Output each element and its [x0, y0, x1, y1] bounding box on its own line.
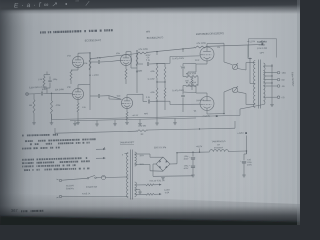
svg-text:50/60Hz: 50/60Hz: [66, 188, 74, 190]
svg-text:+415V: +415V: [237, 133, 244, 135]
label +410V: [196, 146, 203, 152]
wire V3 plate to OPT: [207, 43, 254, 70]
svg-text:4.7k 1/2W: 4.7k 1/2W: [196, 43, 205, 45]
wire V2b plate riser: [127, 94, 143, 97]
label ladder 1k: [147, 78, 154, 80]
ground bus drop 2: [95, 120, 99, 126]
bottom page edge dark: [0, 216, 300, 227]
resistor R4 plate V1b: [83, 58, 91, 70]
fuse F1: [82, 175, 106, 195]
resistor R10 bias: [157, 64, 166, 83]
output terminal 8ohm: [277, 78, 285, 81]
NFB network C2: [48, 77, 51, 89]
OPT core: [258, 60, 260, 109]
svg-text:+170V: +170V: [92, 75, 99, 77]
svg-text:5H160mA: 5H160mA: [214, 146, 224, 149]
wire rail to V1 col: [90, 53, 95, 59]
label R2 rating: [55, 89, 64, 91]
tube V2b ECC82 b: [117, 96, 133, 109]
ground bus drop 6: [173, 118, 177, 124]
output terminal 4ohm: [277, 85, 285, 88]
label +170V upper: [92, 75, 99, 77]
wire to V2a grid: [109, 60, 120, 61]
wire NFB net bottom: [44, 88, 50, 94]
output terminal 0ohm: [277, 96, 285, 99]
choke B rail: [177, 150, 247, 153]
svg-text:220k: 220k: [83, 63, 87, 65]
ground input R1: [32, 123, 36, 125]
svg-text:4.7k 1/4W: 4.7k 1/4W: [138, 49, 147, 51]
wire mid to V4: [55, 128, 200, 133]
tube V4 5687 b: [194, 97, 214, 113]
svg-text:POWER SW: POWER SW: [86, 186, 98, 188]
wire fuse to PT: [106, 176, 125, 179]
resistor R15 rail 4.7k: [136, 49, 148, 54]
svg-text:Cs 47µ 100V: Cs 47µ 100V: [172, 58, 185, 60]
AC plug terminals: [57, 179, 62, 198]
OPT secondary taps: [263, 64, 277, 100]
svg-text:+410V: +410V: [196, 146, 203, 148]
schematic caption (fig.5 title): [40, 30, 113, 32]
notes text block line3: [30, 143, 90, 145]
capacitor C15 filter: [184, 162, 196, 175]
ground R2: [50, 123, 54, 125]
capacitor C5 0.1u upper: [137, 57, 158, 66]
svg-text:400V: 400V: [146, 55, 151, 57]
label Rb1 100ohm: [195, 60, 200, 62]
input jack J1: [26, 87, 42, 96]
capacitor C7 cathode bypass upper: [180, 64, 185, 73]
heater CT ground: [135, 190, 142, 194]
capacitor C6 0.1u lower: [143, 94, 158, 103]
capacitor C16 filter: [240, 151, 252, 175]
PSU ground rail: [153, 176, 193, 180]
tube V1a ECC83 a: [67, 55, 83, 67]
svg-text:400V: 400V: [247, 164, 252, 166]
PT HV secondary: [135, 152, 137, 166]
label +41.5V: [132, 115, 139, 117]
capacitor C3 coupling upper: [90, 57, 109, 64]
wire rail down to OPT: [248, 40, 262, 59]
resistor R8 grid V3: [150, 64, 158, 83]
svg-text:NFB: NFB: [146, 31, 151, 33]
svg-text:1k 1/2W: 1k 1/2W: [147, 78, 154, 80]
wire to V2b grid: [109, 96, 121, 100]
resistor R14 balance: [185, 77, 193, 86]
svg-text:1.5k: 1.5k: [82, 107, 86, 109]
capacitor C1 0.47u: [41, 86, 47, 95]
paper texture striations: [20, 10, 303, 220]
meter jack P2: [232, 86, 238, 93]
svg-text:AC100V: AC100V: [66, 184, 74, 187]
label 12.6V: [164, 189, 170, 194]
svg-text:+41.5V: +41.5V: [132, 115, 139, 117]
wire ladder to bus: [157, 88, 192, 119]
capacitor C8 cathode bypass lower: [181, 92, 185, 100]
svg-text:Rd: Rd: [141, 134, 144, 136]
choke label: [211, 140, 226, 150]
capacitor C4 coupling lower: [90, 94, 109, 98]
heater arrow upper: [96, 147, 105, 150]
svg-text:0: 0: [122, 154, 123, 156]
label heater resistor: [149, 180, 165, 183]
meter jack P1: [232, 63, 238, 70]
label Cs lower: [172, 90, 185, 92]
label Rb2 100ohm: [196, 100, 204, 102]
wire V4 cathode: [183, 86, 207, 97]
resistor R1 input load: [29, 94, 35, 123]
svg-text:367: 367: [11, 208, 19, 213]
wire V2a plate: [126, 52, 137, 68]
vertical rail x137: [136, 50, 137, 93]
ground bus: [70, 118, 196, 121]
svg-text:TAMURA: TAMURA: [257, 40, 267, 43]
power transformer PT label: [120, 141, 136, 145]
bottom shadow band: [0, 193, 300, 225]
label +412.3V: [202, 115, 218, 118]
wire NFB net top: [44, 72, 50, 75]
resistor R9 grid V4: [150, 82, 158, 101]
PT primary taps: [122, 154, 128, 197]
ground V3 ladder: [191, 86, 193, 89]
svg-text:ECC83(12AX7): ECC83(12AX7): [85, 39, 102, 43]
notes text block line6: [22, 161, 90, 163]
wire PT to bridge AC2: [135, 165, 163, 172]
wire PT to bridge AC1: [135, 154, 163, 157]
svg-text:22k 1/4W: 22k 1/4W: [55, 89, 64, 91]
notes text block line7: [22, 165, 76, 166]
heater wire upper: [135, 184, 162, 186]
notes text block line2: [25, 139, 96, 141]
label 400V upper: [146, 55, 151, 57]
resistor R16 rail 4.7k 1/2W: [194, 43, 208, 48]
PT primary winding: [127, 153, 129, 198]
svg-text:0.6A: 0.6A: [165, 191, 170, 194]
B supply wire mid: [55, 128, 235, 133]
label +168V: [136, 70, 143, 72]
svg-text:400V: 400V: [184, 168, 189, 170]
power switch S1: [86, 175, 98, 188]
label ECC82(12AU7): [147, 36, 164, 40]
wire V3 cathode: [183, 61, 207, 72]
label AC100V: [66, 184, 74, 190]
label rectifier ERC-01-10: [154, 147, 167, 149]
wire grid V4: [157, 101, 200, 104]
label NFB values: [38, 79, 58, 81]
wire grid V3: [157, 56, 200, 64]
svg-text:16Ω: 16Ω: [282, 72, 286, 74]
notes text block line5: [22, 158, 88, 160]
ground bus drop 5: [155, 119, 159, 125]
svg-text:1M: 1M: [29, 105, 32, 107]
tube V1b ECC83 b: [67, 87, 83, 100]
wire V1b plate riser: [78, 85, 90, 89]
label +412.5V: [247, 41, 263, 45]
NFB feedback wire: [52, 105, 264, 120]
top dark band (page edge): [0, 0, 300, 10]
notes text block line1: [22, 134, 58, 137]
ground C15: [191, 175, 195, 177]
wire bridge plus: [170, 152, 178, 164]
wire V4 plate to OPT: [207, 89, 254, 115]
svg-text:TAMURA(A)-5: TAMURA(A)-5: [211, 140, 226, 144]
resistor R11 bias2: [157, 82, 166, 101]
output terminal 16ohm: [277, 71, 286, 74]
label ECC83(12AX7): [85, 39, 102, 43]
resistor R12 Rk upper: [186, 72, 198, 78]
wire secondary ground: [270, 100, 274, 107]
svg-text:F-2007: F-2007: [259, 45, 266, 47]
wire bridge minus: [153, 164, 156, 176]
svg-text:100V: 100V: [41, 89, 47, 91]
resistor R13 Rk lower: [186, 82, 198, 86]
svg-text:ECC82(12AU7): ECC82(12AU7): [147, 36, 164, 40]
resistor R2 grid leak: [51, 93, 62, 123]
OPT secondary winding: [263, 63, 265, 105]
label +415V: [235, 121, 247, 154]
PT heater secondary: [135, 182, 137, 197]
label PT 320V: [139, 155, 144, 166]
output transformer OPT label box: [248, 39, 276, 58]
choke CH winding: [210, 150, 229, 152]
OPT primary winding: [253, 61, 255, 108]
vertical rail x90: [89, 53, 90, 110]
wire C1 to grid node: [43, 93, 52, 94]
right page edge shade: [297, 0, 300, 225]
NFB network R3: [43, 75, 45, 89]
cathode network V2: [125, 66, 128, 123]
cathode R6 V1a: [70, 68, 78, 84]
ground bus drop 1: [73, 121, 77, 126]
wire V1a plate to node: [78, 52, 91, 56]
rail junction dots: [156, 48, 183, 55]
svg-text:470k: 470k: [150, 71, 154, 73]
tube V2a ECC82 a: [116, 53, 131, 66]
label NFB top: [146, 31, 151, 33]
PT core: [130, 150, 132, 200]
svg-text:1.5k: 1.5k: [38, 79, 42, 81]
svg-text:Rk 1k 1/2W: Rk 1k 1/2W: [186, 73, 197, 75]
heater wire lower: [135, 193, 162, 195]
left gutter shadow: [0, 0, 26, 225]
notes text block line4: [22, 148, 60, 149]
cathode R5 V1b: [77, 100, 86, 123]
ground V1b cathode: [76, 123, 80, 125]
wire Rk joins: [183, 72, 198, 92]
svg-text:TAMURA(A)PT: TAMURA(A)PT: [120, 141, 136, 145]
svg-text:100Ω 1W: 100Ω 1W: [196, 100, 204, 102]
bridge rectifier D1-D4: [156, 157, 170, 171]
wire input to C1: [28, 93, 40, 95]
resistor R7 plate V2a: [136, 53, 138, 66]
notes text block line8: [24, 168, 90, 170]
wire grid node to V1b: [52, 92, 73, 95]
OPT primary CT: [248, 58, 255, 84]
svg-text:400V: 400V: [184, 158, 189, 160]
ground bus drop 4: [138, 119, 142, 125]
label 5687WB(ECC99,E182CC): [196, 32, 224, 36]
capacitor C14 filter: [184, 152, 196, 163]
wire AC lower to PT: [62, 196, 125, 198]
ground V2b: [125, 122, 129, 124]
ground bus drop 3: [113, 120, 117, 126]
svg-text:470k: 470k: [150, 92, 154, 94]
svg-text:4.7k 5W: 4.7k 5W: [138, 125, 146, 127]
heater arrow lower: [96, 157, 105, 159]
label Cs upper: [172, 58, 185, 60]
tube V3 5687 a: [200, 47, 221, 61]
resistor R17 4.7k 5W: [136, 125, 148, 135]
wire AC upper to switch: [62, 178, 87, 180]
label ch OUTPUT: [291, 72, 294, 87]
B+ rail: [95, 45, 262, 59]
svg-text:100Ω: 100Ω: [195, 60, 200, 62]
svg-text:(2.5k:4-8Ω): (2.5k:4-8Ω): [257, 48, 267, 50]
svg-text:OPT: OPT: [260, 52, 265, 54]
svg-text:FUSE 2A: FUSE 2A: [82, 192, 91, 195]
ground rail amp: [157, 101, 165, 108]
ground C16: [242, 175, 246, 177]
